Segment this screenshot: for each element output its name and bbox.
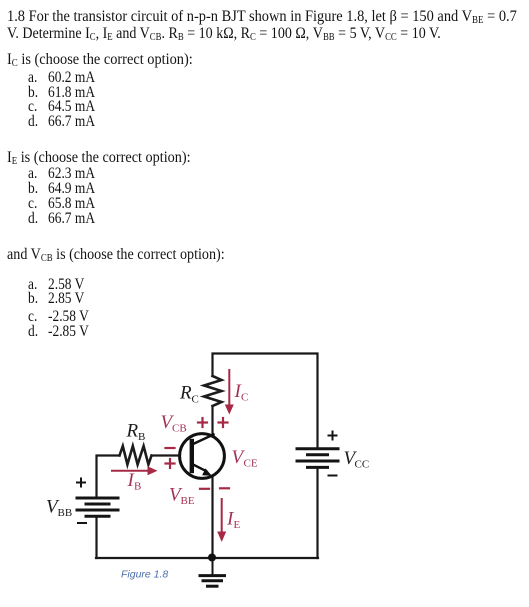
resistor RC (204, 376, 222, 406)
battery VBB plus sign (77, 479, 86, 524)
VCB plus sign (red) (166, 418, 230, 489)
transistor Q1 emitter diagonal with arrow (192, 464, 206, 471)
question 2 header (7, 150, 191, 166)
resistor RB (120, 446, 152, 465)
svg-text:CC: CC (355, 459, 370, 471)
current arrow IE (221, 499, 223, 533)
wire right lower (VCC to bottom) (316, 468, 318, 558)
transistor Q1 circle (180, 434, 225, 479)
question 1 header (7, 52, 193, 68)
transistor Q1 base bar (190, 441, 194, 471)
problem text line 2 (7, 26, 441, 42)
battery VCC (297, 449, 338, 468)
node junction (emitter/ground) (208, 554, 216, 562)
VBE plus sign at base (red) (166, 462, 175, 464)
problem text line 1 (7, 9, 517, 25)
ground (200, 558, 225, 587)
wire left lower (VBB to bottom) (95, 517, 97, 559)
question 3 header (7, 247, 225, 263)
svg-text:R: R (179, 383, 192, 404)
svg-text:B: B (134, 481, 141, 493)
label RC (46, 383, 369, 520)
svg-text:CB: CB (172, 423, 187, 435)
VCE minus sign (red) (220, 487, 229, 489)
VBE minus sign (red) (200, 488, 209, 490)
wire left branch (base corner down to VBB) (97, 456, 120, 499)
svg-text:C: C (241, 392, 248, 404)
wire emitter vertical (211, 476, 213, 558)
wire bottom horizontal (96, 557, 318, 559)
battery VBB minus sign (78, 522, 86, 524)
svg-text:BE: BE (181, 495, 195, 507)
current arrow IB (112, 470, 149, 472)
battery VCC plus sign (329, 432, 337, 476)
VCE plus sign (red) (219, 421, 228, 423)
svg-text:B: B (138, 431, 145, 443)
battery VBB (77, 498, 118, 516)
wire top rail (RC top to VCC top) (213, 354, 318, 449)
svg-text:CE: CE (244, 458, 258, 470)
wire base (RB to transistor) (152, 454, 180, 456)
VCB minus sign at base (red) (166, 447, 175, 449)
svg-text:E: E (234, 519, 241, 531)
svg-text:C: C (192, 394, 199, 406)
wire collector (below RC to transistor) (211, 406, 213, 436)
current arrow IC (228, 370, 230, 406)
svg-text:R: R (126, 421, 139, 442)
battery VCC minus sign (329, 475, 337, 477)
transistor Q1 collector diagonal (192, 435, 214, 445)
svg-text:BB: BB (58, 507, 73, 519)
svg-text:Figure 1.8: Figure 1.8 (121, 569, 168, 581)
